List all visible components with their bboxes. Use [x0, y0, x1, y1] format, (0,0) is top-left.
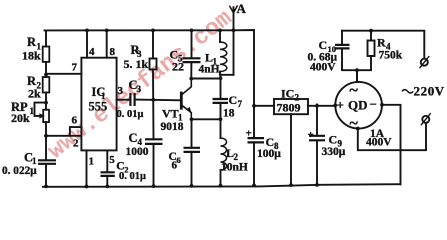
svg-text:9018: 9018	[161, 121, 184, 133]
svg-text:10nH: 10nH	[221, 162, 248, 174]
svg-text:7809: 7809	[277, 101, 301, 115]
svg-text:750k: 750k	[379, 50, 403, 62]
svg-text:C: C	[319, 38, 328, 52]
svg-text:QD: QD	[348, 98, 368, 113]
svg-text:5. 1k: 5. 1k	[124, 57, 149, 71]
svg-text:7: 7	[72, 62, 78, 74]
svg-text:4: 4	[89, 46, 95, 58]
svg-text:A: A	[237, 1, 247, 16]
svg-text:+: +	[337, 98, 344, 113]
svg-text:22: 22	[172, 60, 184, 74]
svg-text:6: 6	[72, 115, 78, 127]
svg-text:+: +	[246, 128, 252, 140]
svg-text:−: −	[370, 97, 377, 112]
svg-text:C: C	[129, 131, 138, 145]
svg-text:IC: IC	[281, 87, 294, 101]
svg-text:0. 01μ: 0. 01μ	[117, 109, 144, 120]
svg-text:+: +	[308, 129, 314, 141]
svg-text:8: 8	[110, 46, 116, 58]
svg-text:2: 2	[73, 137, 79, 149]
svg-text:5: 5	[109, 154, 115, 166]
svg-text:2k: 2k	[28, 87, 41, 101]
svg-text:100μ: 100μ	[257, 148, 281, 160]
svg-text:4nH: 4nH	[199, 64, 220, 76]
svg-text:3: 3	[118, 85, 124, 97]
svg-text:0. 01μ: 0. 01μ	[119, 171, 146, 182]
svg-text:330μ: 330μ	[322, 146, 346, 158]
svg-text:6: 6	[172, 160, 178, 172]
svg-text:R: R	[377, 36, 386, 50]
svg-text:220V: 220V	[414, 84, 445, 99]
svg-text:~: ~	[350, 115, 359, 132]
svg-text:20k: 20k	[11, 111, 30, 125]
svg-text:400V: 400V	[366, 137, 392, 149]
svg-text:2: 2	[234, 152, 239, 162]
svg-text:C: C	[229, 93, 238, 107]
svg-text:3: 3	[137, 84, 142, 94]
svg-text:R: R	[27, 35, 37, 49]
svg-text:1: 1	[30, 106, 35, 116]
svg-text:555: 555	[89, 100, 108, 114]
svg-text:18: 18	[223, 108, 235, 120]
svg-text:0. 022μ: 0. 022μ	[2, 165, 37, 177]
svg-text:7: 7	[238, 99, 243, 109]
svg-text:C: C	[266, 135, 275, 149]
svg-text:400V: 400V	[310, 62, 336, 74]
svg-text:18k: 18k	[22, 49, 41, 63]
svg-text:1: 1	[89, 155, 95, 167]
svg-text:6: 6	[177, 155, 181, 165]
svg-text:~: ~	[350, 82, 359, 99]
svg-text:1000: 1000	[126, 146, 149, 158]
svg-text:VT: VT	[162, 107, 179, 121]
svg-text:C: C	[329, 133, 338, 147]
